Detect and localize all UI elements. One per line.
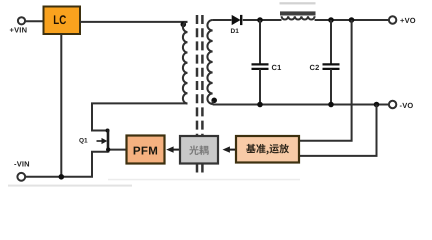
wire Q1 source to bottom rail <box>25 152 108 177</box>
wire D1 to inductor <box>243 19 282 21</box>
svg-text:C2: C2 <box>310 63 320 72</box>
block PFM <box>127 136 165 164</box>
wire LC to transformer primary top <box>80 21 188 23</box>
wire secondary bottom stub <box>212 101 214 105</box>
svg-text:PFM: PFM <box>133 146 158 158</box>
node junction dot gate <box>106 147 110 151</box>
transformer core dashed line right <box>201 15 204 136</box>
transformer T1 primary winding <box>183 22 188 104</box>
node junction dot C2 bottom <box>328 102 334 108</box>
transistor Q1 <box>79 130 108 153</box>
transformer T1 secondary winding <box>207 20 212 104</box>
node junction dot feedback -VO <box>374 102 380 108</box>
svg-text:D1: D1 <box>231 28 240 35</box>
arrow optocoupler to PFM <box>166 146 180 152</box>
block optocoupler 光耦 <box>180 136 218 164</box>
wire +VIN to LC <box>25 20 43 22</box>
node phase dot secondary bottom <box>211 98 217 104</box>
node junction dot C1 top <box>257 17 263 23</box>
node junction dot feedback tap top <box>349 17 355 23</box>
terminal +VO <box>389 16 396 23</box>
wire inductor to +VO <box>315 19 389 21</box>
faint artifact line bottom-left <box>8 185 132 187</box>
inductor L1 winding <box>282 16 315 19</box>
block reference opamp 基准,运放 <box>236 136 299 163</box>
svg-text:+VO: +VO <box>400 16 416 25</box>
node phase dot primary top <box>181 22 187 28</box>
svg-text:LC: LC <box>53 13 66 27</box>
terminal -VIN <box>17 173 25 181</box>
wire PFM to Q1 gate <box>108 149 127 151</box>
capacitor C2 <box>310 20 340 105</box>
faint artifact line bottom-mid <box>108 179 300 181</box>
svg-text:C1: C1 <box>272 63 282 72</box>
svg-text:+VIN: +VIN <box>10 26 28 35</box>
node junction dot LC line bottom <box>59 174 65 180</box>
wire -VO rail <box>213 104 389 106</box>
diode D1 <box>231 15 242 35</box>
terminal +VIN <box>18 17 25 24</box>
svg-text:-VIN: -VIN <box>14 160 30 169</box>
svg-text:-VO: -VO <box>400 101 414 110</box>
capacitor C1 <box>252 20 282 105</box>
inductor L1 bar <box>280 11 316 15</box>
wire feedback from +VO rail to regulator <box>299 20 352 141</box>
node Q1 drain corner <box>106 129 110 133</box>
wire LC bottom down to bottom rail <box>60 34 62 177</box>
wire secondary top to D1 <box>213 19 232 21</box>
arrow regulator to optocoupler <box>223 146 237 152</box>
wire primary bottom to Q1 drain <box>92 103 188 130</box>
wire feedback from -VO rail to regulator <box>299 105 377 156</box>
node junction dot C1 bottom <box>257 102 263 108</box>
transformer core dashed line left <box>196 15 199 136</box>
node junction dot C2 top <box>328 17 334 23</box>
terminal -VO <box>389 101 396 108</box>
block LC <box>44 7 81 35</box>
inductor L1 ghost bar <box>280 2 316 4</box>
svg-text:Q1: Q1 <box>79 138 88 145</box>
